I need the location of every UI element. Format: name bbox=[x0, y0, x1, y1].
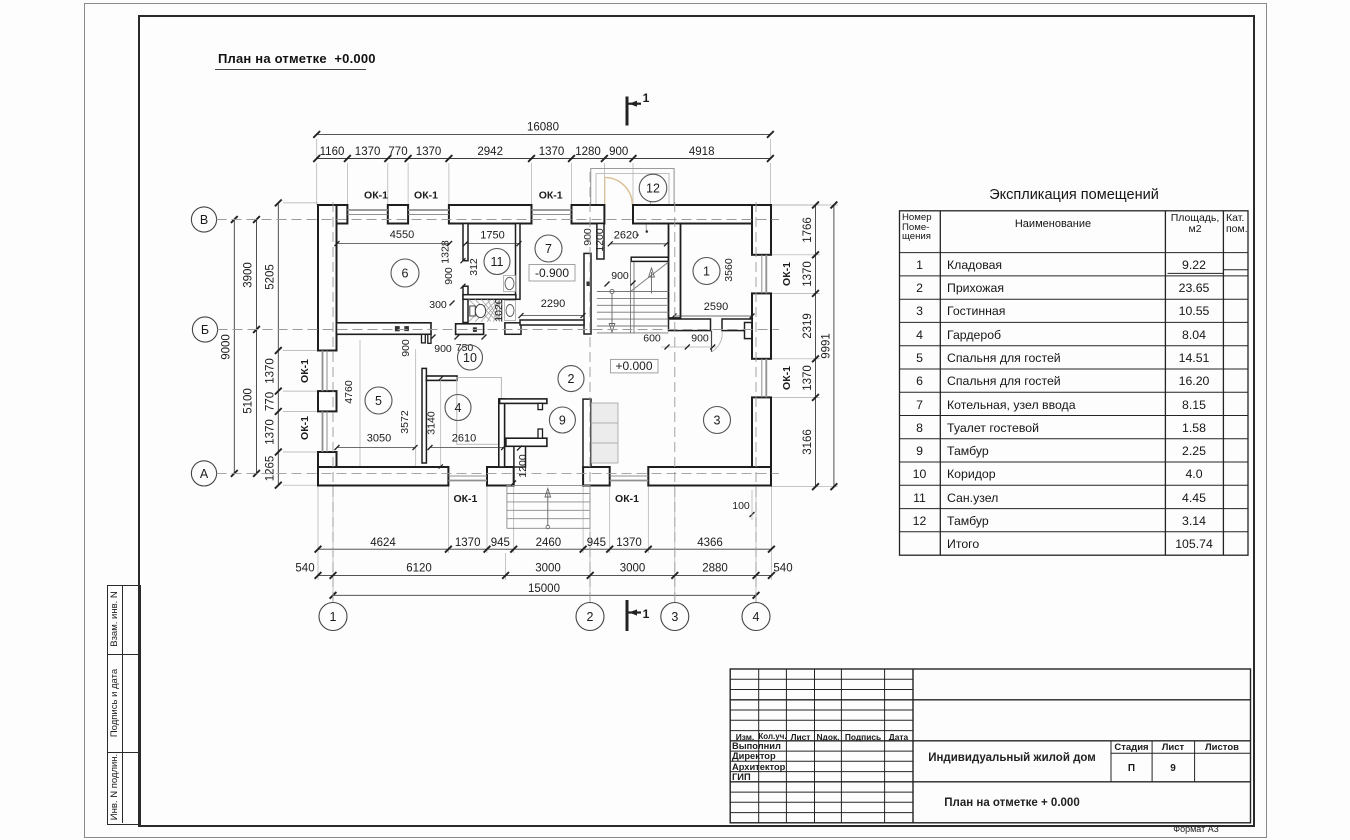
svg-text:1200: 1200 bbox=[517, 454, 529, 478]
window OK-1 top 1 bbox=[347, 209, 387, 211]
dim 2610 room4 bbox=[430, 447, 504, 449]
svg-text:3: 3 bbox=[714, 414, 721, 428]
svg-text:ОК-1: ОК-1 bbox=[364, 190, 388, 202]
axis line 2 bbox=[589, 170, 591, 602]
left sidebar strip cells bbox=[107, 585, 141, 825]
wall stair right / room1 left bbox=[669, 224, 681, 319]
wall vestibule stub bbox=[597, 224, 604, 260]
dimension 15000 bottom bbox=[333, 594, 756, 596]
svg-text:2610: 2610 bbox=[452, 433, 476, 445]
wall stair top bbox=[631, 257, 668, 261]
table row Туалет гостевой bbox=[899, 421, 940, 435]
svg-text:16080: 16080 bbox=[527, 122, 559, 134]
stamp header row: Изм Кол.уч Лист Nдок Подпись Дата bbox=[730, 732, 760, 742]
svg-text:2290: 2290 bbox=[541, 298, 565, 310]
middle wall (axis B) left bbox=[337, 323, 432, 335]
section mark 1 top bbox=[626, 97, 629, 126]
table row Итого bbox=[899, 536, 940, 538]
main drawing frame bbox=[138, 15, 1255, 827]
tambour9 to porch wall bbox=[514, 446, 526, 467]
svg-text:600: 600 bbox=[643, 333, 661, 345]
room8 hatch (toilet) bbox=[469, 299, 500, 322]
table row Спальня для гостей bbox=[899, 374, 940, 388]
wall room7 right / stair left bbox=[584, 253, 591, 334]
door swing arc bbox=[605, 178, 633, 206]
table row Тамбур bbox=[899, 514, 940, 528]
svg-text:ОК-1: ОК-1 bbox=[781, 262, 793, 286]
dim 2590 room1 bbox=[674, 315, 752, 317]
svg-text:312: 312 bbox=[468, 258, 480, 276]
svg-text:540: 540 bbox=[773, 563, 792, 575]
axis line A bbox=[217, 472, 780, 474]
svg-text:100: 100 bbox=[732, 500, 750, 512]
dimension chain top bbox=[317, 158, 771, 160]
svg-text:1370: 1370 bbox=[264, 419, 276, 445]
dimension chain bottom 2 bbox=[318, 574, 771, 576]
window OK-1 top 2 bbox=[408, 209, 449, 211]
axis circle А bbox=[191, 461, 216, 486]
tambour9 bottom wall bbox=[506, 438, 547, 446]
axis line 4 bbox=[755, 197, 757, 602]
svg-text:900: 900 bbox=[691, 333, 709, 345]
dimension 3900 5100 left bbox=[256, 220, 258, 474]
svg-text:3050: 3050 bbox=[367, 433, 391, 445]
axis circle 1 bbox=[319, 603, 347, 631]
svg-text:6120: 6120 bbox=[406, 563, 432, 575]
svg-text:2460: 2460 bbox=[536, 537, 562, 549]
interior staircase bbox=[597, 262, 669, 333]
dim 2290 room7 bbox=[521, 315, 583, 317]
wall porch right / room2 bbox=[583, 399, 591, 467]
svg-text:3900: 3900 bbox=[243, 262, 255, 288]
dim 2620 bbox=[610, 243, 666, 245]
stamp project name bbox=[913, 752, 1111, 764]
svg-text:2319: 2319 bbox=[802, 313, 814, 339]
svg-text:9: 9 bbox=[559, 414, 566, 428]
wall room11/room8 divider bbox=[463, 295, 516, 300]
room tag 11 bbox=[484, 249, 510, 275]
toilet fixture room8 bbox=[470, 306, 476, 316]
axis line 1 bbox=[332, 197, 334, 602]
middle wall pier bbox=[456, 324, 484, 335]
dimension chain bottom 1 bbox=[318, 548, 771, 550]
porch arrow bbox=[547, 492, 549, 526]
svg-text:1370: 1370 bbox=[616, 537, 642, 549]
svg-text:900: 900 bbox=[582, 228, 594, 246]
svg-text:900: 900 bbox=[434, 343, 452, 355]
svg-text:1: 1 bbox=[330, 610, 337, 624]
svg-text:15000: 15000 bbox=[528, 583, 560, 595]
svg-text:1: 1 bbox=[643, 91, 650, 105]
svg-text:2620: 2620 bbox=[614, 230, 638, 242]
axis line 3 bbox=[674, 197, 676, 602]
dimension 9000 left bbox=[233, 220, 235, 474]
svg-text:4918: 4918 bbox=[689, 146, 715, 158]
room tag 12 bbox=[639, 174, 667, 202]
dim 1750 room11 bbox=[466, 243, 519, 245]
level +0.000 bbox=[611, 359, 659, 373]
axis circle 4 bbox=[742, 603, 770, 631]
svg-text:3140: 3140 bbox=[426, 411, 438, 435]
exterior wall top bbox=[318, 205, 347, 224]
svg-text:1766: 1766 bbox=[802, 217, 814, 243]
svg-text:ОК-1: ОК-1 bbox=[539, 190, 563, 202]
room tag 3 bbox=[704, 407, 731, 434]
extension lines top bbox=[316, 163, 318, 205]
svg-text:10: 10 bbox=[463, 351, 477, 365]
svg-text:1370: 1370 bbox=[802, 261, 814, 287]
wall room6/room11 bbox=[463, 224, 468, 261]
porch steps bbox=[507, 486, 590, 529]
svg-text:1370: 1370 bbox=[455, 537, 481, 549]
room tag 1 bbox=[693, 258, 720, 285]
furniture room2 bbox=[592, 403, 619, 463]
table row Гардероб bbox=[899, 328, 940, 342]
svg-text:5205: 5205 bbox=[264, 264, 276, 290]
sidebar label: Подпись и дата bbox=[109, 633, 121, 773]
svg-text:ОК-1: ОК-1 bbox=[414, 190, 438, 202]
extension lines left bbox=[283, 202, 318, 204]
table row Котельная, узел ввода bbox=[899, 398, 940, 412]
room4 top wall + door leaf bbox=[426, 376, 457, 380]
svg-text:300: 300 bbox=[429, 299, 447, 311]
middle wall piece right of door bbox=[505, 323, 521, 335]
room tag 6 bbox=[391, 259, 419, 287]
svg-text:2880: 2880 bbox=[702, 563, 728, 575]
axis line B bbox=[218, 329, 780, 331]
svg-text:ОК-1: ОК-1 bbox=[781, 366, 793, 390]
svg-text:1: 1 bbox=[643, 607, 650, 621]
dimension 16080 top bbox=[317, 133, 771, 135]
svg-text:3000: 3000 bbox=[535, 563, 561, 575]
svg-text:2: 2 bbox=[568, 372, 575, 386]
stamp stage cells bbox=[1111, 742, 1152, 753]
table row Коридор bbox=[899, 467, 940, 481]
axis circle 3 bbox=[661, 603, 689, 631]
extension lines bottom bbox=[317, 486, 319, 554]
door jamb tabs middle wall bbox=[422, 334, 426, 343]
stamp signature rows bbox=[732, 741, 781, 751]
wall room1 bottom bbox=[669, 319, 711, 331]
svg-text:2942: 2942 bbox=[477, 146, 503, 158]
extension lines right bbox=[771, 204, 820, 206]
table row Прихожая bbox=[899, 281, 940, 295]
svg-text:1160: 1160 bbox=[320, 146, 345, 158]
wall room4 right / tambour9 left bbox=[499, 399, 505, 467]
exterior wall bottom bbox=[318, 467, 448, 486]
washbasin room11 bbox=[504, 276, 516, 292]
svg-text:770: 770 bbox=[388, 146, 407, 158]
axis circle В bbox=[191, 207, 216, 232]
svg-text:4: 4 bbox=[455, 401, 462, 415]
table row Тамбур bbox=[899, 444, 940, 458]
dimension 9991 right bbox=[833, 205, 835, 487]
svg-text:ОК-1: ОК-1 bbox=[299, 359, 311, 383]
svg-text:3560: 3560 bbox=[723, 258, 735, 282]
format label bbox=[1146, 824, 1246, 834]
svg-text:540: 540 bbox=[295, 563, 314, 575]
svg-text:Б: Б bbox=[201, 323, 209, 337]
closet outline room4 bbox=[457, 378, 502, 445]
svg-text:4: 4 bbox=[753, 610, 760, 624]
svg-text:1370: 1370 bbox=[264, 358, 276, 384]
svg-text:1200: 1200 bbox=[594, 228, 606, 252]
svg-text:1020: 1020 bbox=[493, 298, 505, 322]
room tag 7 bbox=[535, 235, 562, 262]
section mark 1 bottom bbox=[626, 600, 629, 631]
svg-text:1370: 1370 bbox=[355, 146, 381, 158]
svg-text:1370: 1370 bbox=[802, 365, 814, 391]
svg-text:4550: 4550 bbox=[390, 229, 414, 241]
door room1 leaf bbox=[711, 331, 713, 352]
table row Кладовая bbox=[899, 258, 940, 272]
window OK-1 top 3 bbox=[532, 209, 572, 211]
svg-text:2590: 2590 bbox=[704, 301, 728, 313]
wall room11/room7 bbox=[516, 224, 521, 300]
dim 900 door6 bbox=[461, 258, 466, 263]
axis line V bbox=[217, 219, 780, 221]
svg-text:5100: 5100 bbox=[243, 388, 255, 414]
svg-text:1265: 1265 bbox=[264, 456, 276, 482]
window OK-1 left 1 bbox=[322, 351, 324, 392]
svg-text:А: А bbox=[200, 467, 209, 481]
svg-text:3: 3 bbox=[671, 610, 678, 624]
tambour9 top wall bbox=[500, 399, 547, 404]
stair arrow down bbox=[610, 289, 614, 293]
wall stub right of axis B bbox=[745, 323, 752, 339]
table row Сан.узел bbox=[899, 491, 940, 505]
dim 3050 room5 bbox=[337, 447, 415, 449]
dimension chain right bbox=[815, 205, 817, 487]
level -0.900 bbox=[529, 265, 575, 282]
dim 4550 room6 bbox=[337, 243, 450, 245]
svg-text:3000: 3000 bbox=[620, 563, 646, 575]
fixture lower room8 bbox=[505, 301, 516, 321]
svg-text:9991: 9991 bbox=[821, 333, 833, 359]
room tag leader 12 bbox=[646, 201, 651, 231]
wall room5/room4 bbox=[422, 368, 426, 463]
svg-text:12: 12 bbox=[646, 182, 660, 196]
svg-text:ОК-1: ОК-1 bbox=[299, 416, 311, 440]
window OK-1 bottom 1 bbox=[448, 480, 487, 482]
room tag 4 bbox=[445, 395, 471, 421]
table title bbox=[899, 187, 1249, 203]
svg-text:3572: 3572 bbox=[399, 410, 411, 434]
svg-text:2: 2 bbox=[587, 610, 594, 624]
svg-text:В: В bbox=[200, 213, 208, 227]
sidebar label: Взам. инв. N bbox=[109, 564, 121, 674]
room tag 10 bbox=[458, 345, 483, 370]
drawing title bbox=[218, 51, 376, 66]
svg-text:4624: 4624 bbox=[370, 537, 396, 549]
svg-text:1370: 1370 bbox=[539, 146, 565, 158]
svg-text:-0.900: -0.900 bbox=[535, 266, 569, 280]
room7 bottom wall bbox=[520, 320, 584, 325]
svg-text:1370: 1370 bbox=[416, 146, 442, 158]
svg-text:1750: 1750 bbox=[480, 230, 504, 242]
svg-text:11: 11 bbox=[491, 255, 504, 269]
room tag 5 bbox=[365, 387, 392, 414]
svg-text:945: 945 bbox=[491, 537, 510, 549]
svg-text:4760: 4760 bbox=[343, 380, 355, 404]
window OK-1 left 2 bbox=[322, 411, 324, 452]
stamp sheet name bbox=[913, 797, 1111, 809]
table row Спальня для гостей bbox=[899, 351, 940, 365]
dimension chain left 5205 bbox=[277, 203, 279, 485]
stair arrow up bbox=[651, 272, 653, 294]
svg-text:3166: 3166 bbox=[802, 429, 814, 455]
svg-text:1280: 1280 bbox=[575, 146, 601, 158]
svg-text:9000: 9000 bbox=[221, 334, 233, 360]
svg-text:6: 6 bbox=[402, 267, 409, 281]
svg-text:ОК-1: ОК-1 bbox=[453, 493, 477, 505]
window OK-1 right 1 bbox=[765, 255, 767, 294]
vestibule 12 outline bbox=[591, 169, 674, 206]
room tag 2 bbox=[558, 366, 584, 392]
svg-text:+0.000: +0.000 bbox=[615, 359, 652, 373]
svg-text:900: 900 bbox=[609, 146, 628, 158]
svg-text:770: 770 bbox=[264, 392, 276, 411]
axis circle Б bbox=[192, 317, 217, 342]
exterior wall right bbox=[752, 205, 771, 255]
dim 3140 bbox=[440, 379, 442, 467]
svg-text:900: 900 bbox=[611, 270, 629, 282]
svg-text:ОК-1: ОК-1 bbox=[615, 493, 639, 505]
svg-text:900: 900 bbox=[400, 339, 412, 357]
svg-text:5: 5 bbox=[375, 394, 382, 408]
svg-text:900: 900 bbox=[443, 267, 455, 285]
table row Гостинная bbox=[899, 304, 940, 318]
svg-text:4366: 4366 bbox=[697, 537, 723, 549]
svg-text:1328: 1328 bbox=[440, 240, 452, 264]
svg-text:1: 1 bbox=[703, 265, 710, 279]
room tag 9 bbox=[549, 407, 575, 433]
sidebar label: Инв. N подлин. bbox=[109, 723, 121, 840]
window OK-1 right 2 bbox=[765, 359, 767, 398]
window OK-1 bottom 2 bbox=[610, 480, 649, 482]
table header texts bbox=[902, 213, 939, 242]
axis circle 2 bbox=[576, 603, 604, 631]
exterior wall left bbox=[318, 205, 337, 351]
svg-text:7: 7 bbox=[545, 242, 552, 256]
